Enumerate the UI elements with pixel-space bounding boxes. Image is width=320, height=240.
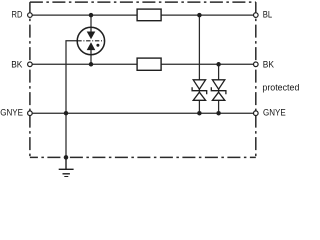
junction TVS1 bottom on GNYE line [197, 111, 202, 116]
svg-text:BK: BK [11, 59, 22, 69]
enclosure outline (dash-dot device boundary) [30, 2, 256, 157]
resistor (middle, decoupling element) [137, 58, 161, 70]
wire TVS chain 1 drop (top line to GNYE) [198, 15, 200, 113]
TVS suppressor diode (left, bidirectional) [192, 80, 207, 101]
terminal RD [28, 13, 33, 18]
terminal BK (right) [254, 62, 259, 67]
junction GDT top on RD-BL line [89, 13, 94, 18]
terminal GNYE (left) [28, 111, 33, 116]
junction GDT bottom on BK line [89, 62, 94, 67]
svg-text:RD: RD [12, 10, 23, 20]
junction TVS2 top on BK line [216, 62, 221, 67]
ground (earth symbol) [59, 157, 74, 176]
junction TVS2 bottom on GNYE line [216, 111, 221, 116]
wire GNYE to GNYE (bottom line) [30, 112, 256, 114]
wire GDT branch (vertical through gas discharge tube) [90, 15, 92, 64]
wire TVS chain 2 drop (middle line to GNYE) [218, 64, 220, 113]
wire GDT centre electrode to earth [66, 41, 78, 158]
svg-text:BK: BK [263, 59, 274, 69]
svg-text:protected: protected [262, 83, 299, 93]
TVS suppressor diode (right, bidirectional) [211, 80, 226, 101]
terminal BL [254, 13, 259, 18]
wire BK to BK (middle line) [30, 63, 256, 65]
terminal GNYE (right) [254, 111, 259, 116]
terminal BK (left) [28, 62, 33, 67]
wire RD to BL (top line) [30, 14, 256, 16]
gas discharge tube (3-electrode arrester) [77, 27, 104, 54]
svg-text:BL: BL [263, 10, 272, 20]
svg-text:GNYE: GNYE [263, 108, 286, 118]
junction earth wire on enclosure boundary [64, 155, 69, 160]
junction TVS1 top on RD-BL line [197, 13, 202, 18]
resistor (top, decoupling element) [137, 9, 161, 21]
junction earth branch on GNYE line [64, 111, 69, 116]
svg-text:GNYE: GNYE [0, 108, 23, 118]
